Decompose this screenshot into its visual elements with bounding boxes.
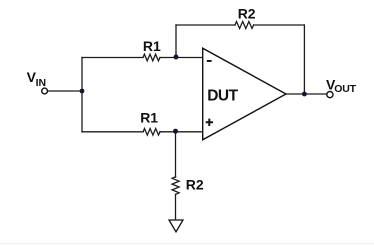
bottom faint divider line [0, 243, 374, 245]
svg-text:R2: R2 [186, 176, 204, 192]
node: non-inverting input junction [173, 129, 178, 134]
wire: top branch right segment to op-amp inverting input [160, 57, 203, 59]
wire: feedback left vertical [175, 25, 177, 58]
ground [169, 220, 183, 232]
resistor R2 (to ground) vertical zigzag [172, 177, 179, 195]
op-amp inverting input minus sign [207, 60, 212, 62]
wire: feedback top right segment [254, 24, 305, 26]
svg-text:R1: R1 [143, 38, 161, 54]
wire: feedback top left segment [176, 24, 235, 26]
wire: bottom branch left segment [82, 131, 143, 133]
terminal V_IN [42, 88, 48, 94]
svg-text:DUT: DUT [207, 88, 238, 105]
wire: non-inverting node down to R2 [175, 132, 177, 177]
svg-text:R2: R2 [238, 5, 256, 21]
wire: feedback right vertical to output node [303, 25, 305, 94]
svg-text:OUT: OUT [334, 83, 356, 95]
svg-text:R1: R1 [140, 109, 158, 125]
wire: left vertical between branches [81, 58, 83, 132]
wire: bottom branch right segment to op-amp non-inverting input [160, 131, 203, 133]
terminal V_OUT [327, 92, 333, 98]
wire: top branch left segment [82, 57, 143, 59]
node: inverting input junction [174, 55, 179, 60]
node: input junction [80, 89, 85, 94]
resistor R1 (top) zigzag [143, 54, 160, 61]
resistor R2 (feedback) zigzag [235, 22, 254, 29]
svg-text:IN: IN [36, 77, 47, 89]
wire: V_IN terminal to input node [48, 90, 83, 92]
op-amp U1 (DUT) triangle [203, 48, 286, 140]
node: output junction [302, 92, 307, 97]
op-amp non-inverting input plus sign [206, 119, 213, 126]
resistor R1 (bottom) zigzag [143, 129, 160, 136]
wire: R2 bottom to ground [175, 194, 177, 220]
wire: op-amp output to V_OUT terminal [286, 93, 327, 95]
